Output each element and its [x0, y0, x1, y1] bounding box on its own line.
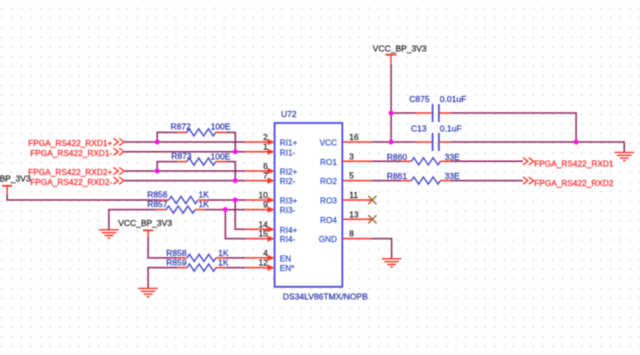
wire	[450, 180, 523, 182]
ground G4 top right	[614, 152, 634, 160]
svg-text:6: 6	[263, 161, 268, 171]
svg-text:10: 10	[258, 190, 268, 200]
svg-text:15: 15	[258, 229, 268, 239]
svg-text:2: 2	[263, 132, 268, 142]
power VCC_BP_3V3 mid	[118, 218, 172, 238]
svg-text:GND: GND	[319, 235, 337, 244]
svg-text:VCC_BP_3V3: VCC_BP_3V3	[373, 44, 427, 54]
pin 10 RI3+	[245, 190, 297, 206]
resistor R859	[166, 258, 229, 272]
wire	[148, 268, 177, 289]
svg-text:RO1: RO1	[320, 158, 337, 167]
ground G3 pin 8	[382, 259, 402, 267]
pin 16 VCC	[320, 132, 372, 148]
power VCC_BP_3V3 top	[373, 44, 427, 64]
pin 13 RO4	[320, 209, 372, 225]
wire	[450, 113, 576, 142]
svg-text:4: 4	[263, 248, 268, 258]
svg-text:RI3-: RI3-	[280, 206, 296, 215]
svg-text:11: 11	[349, 190, 358, 200]
port FPGA_RS422_RXD2 out	[523, 177, 614, 188]
svg-text:FPGA_RS422_RXD1-: FPGA_RS422_RXD1-	[30, 148, 112, 158]
wire	[226, 162, 235, 181]
wire	[124, 170, 245, 172]
svg-text:RI4-: RI4-	[280, 235, 296, 244]
svg-text:8: 8	[349, 229, 354, 239]
junction dots	[155, 111, 579, 213]
svg-text:12: 12	[258, 258, 268, 268]
IC U72 (DS34LV86TMX/NOPB) body	[275, 109, 369, 302]
svg-text:C875: C875	[409, 94, 430, 104]
svg-text:3: 3	[349, 151, 354, 161]
ground G1 under R857	[99, 230, 119, 238]
svg-text:FPGA_RS422_RXD1: FPGA_RS422_RXD1	[534, 159, 614, 169]
svg-text:U72: U72	[281, 109, 297, 119]
wire	[208, 199, 245, 201]
svg-text:RI1+: RI1+	[280, 139, 298, 148]
resistor R861	[387, 171, 460, 184]
svg-text:RO3: RO3	[320, 197, 337, 206]
pin 4 EN	[245, 248, 291, 264]
svg-text:1K: 1K	[218, 258, 229, 268]
resistor R857	[147, 199, 209, 213]
node R873 left junction	[155, 169, 160, 174]
pin 9 RI3-	[245, 200, 295, 216]
svg-text:RI4+: RI4+	[280, 226, 298, 235]
svg-text:100E: 100E	[211, 151, 231, 161]
svg-text:DS34LV86TMX/NOPB: DS34LV86TMX/NOPB	[283, 292, 368, 302]
svg-text:RI2+: RI2+	[280, 168, 298, 177]
capacitor C875	[409, 94, 466, 122]
svg-text:1: 1	[263, 142, 268, 152]
svg-text:5: 5	[349, 171, 354, 181]
pin 8 GND	[319, 229, 372, 245]
resistor R873	[171, 151, 230, 165]
svg-text:RI2-: RI2-	[280, 177, 296, 186]
svg-text:0.1uF: 0.1uF	[440, 123, 462, 133]
wire	[226, 267, 245, 269]
node RI3-/RI4- tie	[223, 207, 228, 212]
port FPGA_RS422_RXD2-	[30, 177, 124, 187]
svg-text:EN*: EN*	[280, 264, 295, 273]
svg-text:RO2: RO2	[320, 177, 337, 186]
node R873 right junction	[233, 178, 238, 183]
svg-text:RI1-: RI1-	[280, 148, 296, 157]
wire	[205, 209, 245, 211]
svg-text:R860: R860	[387, 152, 408, 162]
svg-text:9: 9	[263, 200, 268, 210]
svg-text:RI3+: RI3+	[280, 197, 298, 206]
no-connect X pin 11	[368, 196, 376, 204]
wire	[225, 210, 245, 239]
wire	[450, 142, 624, 152]
resistor R860	[387, 152, 460, 165]
wire	[157, 132, 177, 142]
wire	[226, 257, 245, 259]
capacitor C13	[411, 123, 462, 151]
svg-text:100E: 100E	[211, 122, 231, 132]
resistor R872	[171, 122, 231, 136]
svg-text:1K: 1K	[218, 248, 229, 258]
svg-text:RO4: RO4	[320, 216, 337, 225]
svg-text:VCC: VCC	[320, 139, 337, 148]
port FPGA_RS422_RXD1 out	[523, 158, 614, 169]
wire	[390, 64, 392, 142]
pin 3 RO1	[320, 151, 372, 167]
wire	[450, 160, 523, 162]
pin 1 RI1-	[245, 142, 295, 158]
wire	[235, 200, 245, 229]
wire	[124, 151, 245, 153]
node R872 left junction	[155, 140, 160, 145]
wire	[7, 195, 159, 201]
svg-text:1K: 1K	[199, 190, 210, 200]
wire	[148, 238, 177, 258]
power BP_3V3 left	[0, 173, 31, 194]
node C875 tap	[389, 111, 394, 116]
pin 6 RI2+	[245, 161, 297, 177]
svg-text:R856: R856	[147, 190, 168, 200]
wire	[372, 239, 392, 259]
svg-text:R857: R857	[147, 199, 168, 209]
wire	[372, 141, 417, 143]
svg-text:R861: R861	[387, 171, 408, 181]
pin 11 RO3	[320, 190, 372, 206]
svg-text:FPGA_RS422_RXD2+: FPGA_RS422_RXD2+	[28, 167, 112, 177]
svg-text:C13: C13	[411, 123, 427, 133]
pin 2 RI1+	[245, 132, 297, 148]
svg-text:1K: 1K	[199, 199, 210, 209]
svg-text:0.01uF: 0.01uF	[440, 94, 466, 104]
wire	[226, 132, 235, 151]
pin 14 RI4+	[245, 219, 297, 235]
svg-text:R859: R859	[166, 258, 187, 268]
svg-text:7: 7	[263, 171, 268, 181]
svg-text:VCC_BP_3V3: VCC_BP_3V3	[118, 218, 172, 228]
svg-text:BP_3V3: BP_3V3	[0, 173, 31, 183]
svg-text:EN: EN	[280, 255, 291, 264]
wire	[372, 160, 402, 162]
resistor R858	[166, 248, 229, 262]
svg-text:FPGA_RS422_RXD2: FPGA_RS422_RXD2	[534, 178, 614, 188]
pin 15 RI4-	[245, 229, 295, 245]
port FPGA_RS422_RXD1-	[30, 148, 124, 158]
pin 7 RI2-	[245, 171, 295, 187]
wire	[124, 180, 245, 182]
wire	[109, 210, 156, 230]
svg-text:R873: R873	[171, 151, 192, 161]
wire	[372, 180, 402, 182]
svg-text:FPGA_RS422_RXD1+: FPGA_RS422_RXD1+	[28, 138, 112, 148]
port FPGA_RS422_RXD1+	[28, 138, 124, 148]
svg-text:33E: 33E	[445, 171, 460, 181]
svg-text:16: 16	[349, 132, 359, 142]
pin 12 EN*	[245, 258, 295, 274]
node cap ground join	[574, 140, 579, 145]
wire	[157, 162, 177, 171]
pin 5 RO2	[320, 171, 372, 187]
svg-text:R872: R872	[171, 122, 192, 132]
svg-text:FPGA_RS422_RXD2-: FPGA_RS422_RXD2-	[30, 177, 112, 187]
wire	[391, 112, 416, 114]
port FPGA_RS422_RXD2+	[28, 167, 124, 177]
node R872 right junction	[233, 149, 238, 154]
wire	[124, 141, 245, 143]
node RI3+/RI4+ tie	[233, 198, 238, 203]
resistor R856	[147, 190, 209, 204]
no-connect X pin 13	[368, 215, 376, 223]
ground G2 under R859	[138, 288, 158, 296]
svg-text:13: 13	[349, 209, 359, 219]
node VCC rail tap	[389, 140, 394, 145]
svg-text:R858: R858	[166, 248, 187, 258]
svg-text:33E: 33E	[445, 152, 460, 162]
